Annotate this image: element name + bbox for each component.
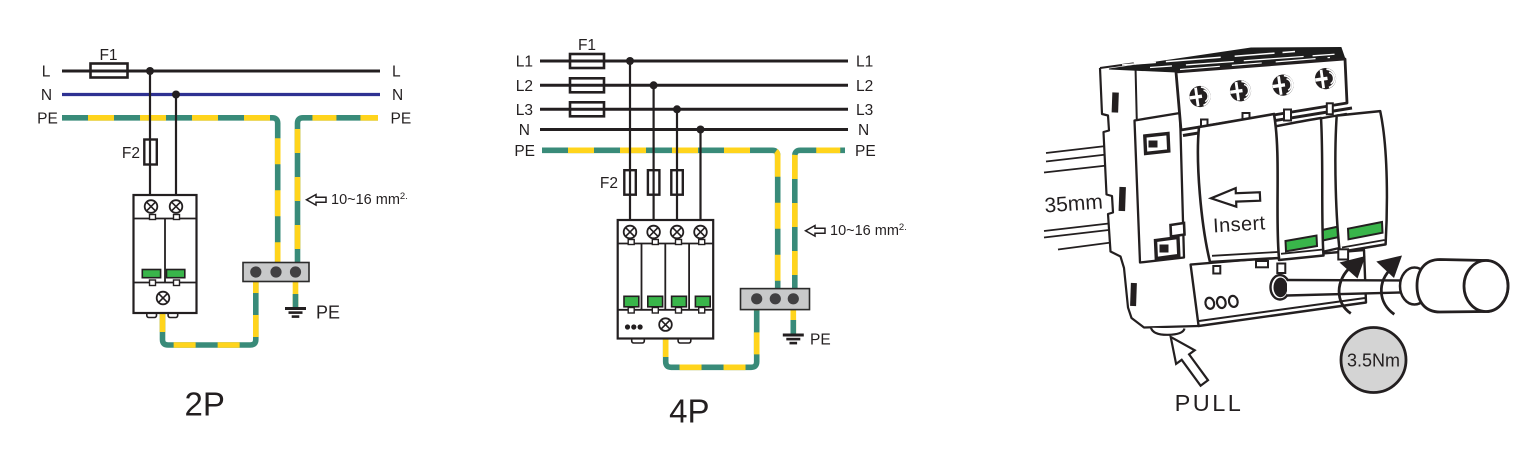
svg-text:N: N [519, 122, 530, 139]
svg-text:N: N [392, 87, 403, 104]
svg-text:3.5Nm: 3.5Nm [1347, 351, 1400, 371]
svg-text:2P: 2P [185, 386, 225, 423]
svg-text:F1: F1 [99, 47, 117, 64]
svg-text:35mm: 35mm [1044, 190, 1104, 217]
svg-text:L2: L2 [516, 78, 533, 95]
svg-text:PE: PE [810, 332, 831, 349]
svg-text:F2: F2 [122, 145, 140, 162]
svg-text:Insert: Insert [1212, 212, 1266, 237]
svg-text:PE: PE [514, 143, 535, 160]
svg-text:PULL: PULL [1175, 390, 1244, 416]
svg-text:N: N [858, 122, 869, 139]
svg-text:L3: L3 [856, 102, 873, 119]
svg-text:L3: L3 [516, 102, 533, 119]
svg-text:L1: L1 [516, 54, 533, 71]
svg-text:PE: PE [391, 111, 412, 128]
svg-text:10~16 mm2.: 10~16 mm2. [830, 222, 907, 239]
svg-text:10~16 mm2.: 10~16 mm2. [331, 191, 408, 208]
svg-text:F1: F1 [578, 37, 596, 54]
svg-text:PE: PE [316, 303, 340, 323]
svg-text:PE: PE [855, 143, 876, 160]
svg-text:4P: 4P [669, 393, 709, 430]
svg-text:PE: PE [37, 111, 58, 128]
svg-text:N: N [41, 87, 52, 104]
svg-text:F2: F2 [600, 175, 618, 192]
svg-text:L2: L2 [856, 78, 873, 95]
svg-text:L: L [42, 64, 51, 81]
svg-text:L1: L1 [856, 54, 873, 71]
svg-text:L: L [392, 64, 401, 81]
